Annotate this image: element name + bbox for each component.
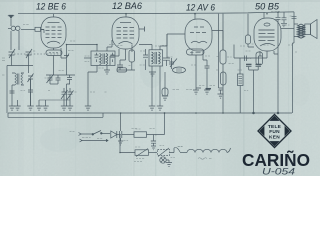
svg-text:50 B5: 50 B5 — [255, 2, 280, 12]
svg-text:FUN: FUN — [269, 129, 280, 135]
svg-text:12 AV 6: 12 AV 6 — [186, 3, 216, 13]
svg-text:U-054: U-054 — [262, 167, 295, 177]
svg-text:12 BE 6: 12 BE 6 — [36, 2, 67, 12]
svg-text:KEN: KEN — [269, 135, 280, 141]
svg-text:TELE: TELE — [268, 124, 282, 130]
svg-text:12 BA6: 12 BA6 — [112, 1, 143, 11]
